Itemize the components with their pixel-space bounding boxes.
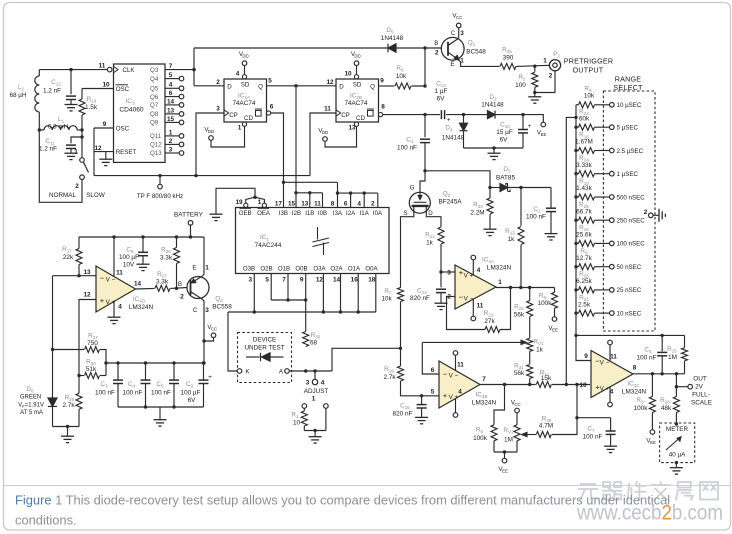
wire to ground	[534, 93, 536, 97]
capacitor C13 1uF	[441, 110, 444, 119]
wire C11 bottom	[70, 149, 72, 153]
svg-text:5: 5	[431, 389, 435, 396]
svg-text:1N4148: 1N4148	[442, 135, 465, 142]
svg-text:5: 5	[265, 277, 269, 284]
svg-text:G: G	[410, 185, 415, 192]
svg-text:100k: 100k	[538, 300, 553, 307]
svg-text:BATTERY: BATTERY	[174, 212, 204, 219]
wire CP11 to bottom rail	[310, 113, 336, 176]
junction R13 tap	[519, 186, 522, 189]
svg-text:V +: V +	[600, 386, 610, 393]
wire R28 to Q2 base	[171, 287, 188, 290]
svg-text:V +: V +	[464, 273, 474, 280]
svg-text:8: 8	[381, 104, 385, 111]
wire ladder bus to pin9	[576, 105, 591, 361]
wire R33 top	[489, 188, 491, 199]
svg-text:2.5k: 2.5k	[578, 301, 591, 308]
switch contact 2 (normal/slow)	[80, 175, 85, 180]
box RANGE SELECT	[603, 91, 655, 331]
wire output drop x358	[357, 274, 359, 313]
ground C8	[137, 264, 150, 270]
resistor R26 6.25k (25 nSEC)	[579, 287, 595, 293]
wire V- stub IC4A	[472, 300, 474, 317]
wire R17 top	[78, 237, 80, 249]
svg-text:4.7M: 4.7M	[539, 423, 553, 430]
wire C2 bottom	[550, 212, 552, 234]
resistor R27 750	[85, 347, 100, 353]
clock wedge IC2A	[224, 110, 229, 116]
wire bus lead 10 nSEC	[576, 312, 579, 314]
junction C7 tap	[575, 416, 578, 419]
terminal VEE RV2	[502, 458, 507, 463]
svg-text:100 nF: 100 nF	[637, 355, 657, 362]
wire battery rail	[79, 236, 204, 238]
resistor R33 2.2M	[487, 198, 493, 214]
resistor R2 100	[532, 72, 538, 87]
diode DUT	[246, 353, 284, 361]
terminal V+ supply IC4A	[471, 255, 476, 260]
switch contact 1 (normal/slow)	[80, 158, 85, 163]
gate bar Q3	[414, 201, 427, 203]
terminal Q8 output	[179, 112, 184, 117]
wire into pin3	[441, 271, 455, 273]
terminal Q9 output	[179, 120, 184, 125]
wire C15 top	[421, 396, 423, 404]
svg-text:15: 15	[167, 116, 175, 123]
svg-text:74AC74: 74AC74	[344, 100, 368, 107]
resistor R14	[79, 99, 85, 115]
wire R20 bottom	[78, 409, 80, 426]
wire bus lead 1 µSEC	[576, 173, 579, 175]
base bar Q2	[190, 280, 192, 295]
svg-text:1: 1	[312, 396, 316, 403]
svg-text:C: C	[451, 30, 456, 37]
terminal BATTERY	[188, 221, 193, 226]
wire feedback rail top	[576, 334, 685, 336]
overline OEB OEA	[240, 208, 270, 210]
ground range select	[659, 209, 665, 222]
wire C8 top	[142, 237, 144, 252]
wire adjust stub	[314, 371, 316, 379]
junction gate node	[423, 169, 426, 172]
junction R17 bottom	[77, 274, 80, 277]
svg-text:3: 3	[216, 106, 220, 113]
junction R13 bottom	[519, 286, 522, 289]
svg-text:+: +	[528, 123, 532, 130]
wire C7 top	[610, 418, 612, 431]
svg-text:EE: EE	[541, 132, 547, 137]
wire pin4 stub	[363, 193, 365, 207]
svg-text:CD: CD	[356, 115, 365, 122]
terminal VCC RV2	[515, 408, 520, 413]
wire RESET ground stub	[105, 152, 107, 159]
junction R26 bottom	[175, 287, 178, 290]
wire meter ground stub	[675, 463, 677, 468]
svg-text:3.3k: 3.3k	[160, 255, 173, 262]
wire vertical into IC2A D input	[193, 48, 195, 86]
wire OSC pin10	[82, 88, 114, 90]
svg-text:FULL-: FULL-	[692, 392, 710, 399]
connector P2 outer	[549, 60, 560, 71]
resistor R28 48k	[673, 397, 679, 413]
wire D1 top	[463, 115, 465, 123]
svg-text:1: 1	[74, 149, 78, 156]
wire C14 top	[440, 272, 442, 287]
svg-text:E: E	[192, 265, 196, 272]
svg-text:OUTPUT: OUTPUT	[573, 66, 604, 75]
terminal range common	[649, 213, 654, 218]
wire LED/R20 join	[53, 426, 80, 428]
junction trigger feed	[574, 116, 577, 119]
wire header A upper	[284, 181, 338, 183]
svg-text:I0A: I0A	[373, 210, 383, 217]
svg-text:Q: Q	[370, 83, 375, 90]
wire ground stub	[493, 148, 495, 153]
svg-text:2: 2	[180, 294, 184, 301]
wire bus to K terminal	[228, 312, 237, 371]
svg-text:V −: V −	[464, 296, 474, 303]
junction meter bottom	[675, 461, 678, 464]
wire V+ stub IC4C	[609, 387, 611, 402]
wire R27 right	[100, 350, 106, 376]
svg-text:V −: V −	[449, 373, 459, 380]
wire TP stub	[159, 176, 161, 185]
junction bus/feedback	[574, 334, 577, 337]
svg-text:RESET: RESET	[116, 149, 137, 156]
wire output bus low	[228, 311, 376, 313]
svg-text:2.2M: 2.2M	[470, 210, 484, 217]
svg-text:EE: EE	[502, 469, 508, 474]
junction C6 top	[661, 334, 664, 337]
svg-text:3: 3	[447, 270, 451, 277]
wire OE to ground	[216, 188, 255, 214]
junction pin6 header	[282, 181, 285, 184]
svg-text:I1B: I1B	[305, 210, 314, 217]
svg-text:6.25k: 6.25k	[576, 278, 592, 285]
svg-text:4: 4	[458, 389, 462, 396]
svg-text:1: 1	[169, 129, 173, 136]
svg-text:750: 750	[87, 340, 98, 347]
svg-text:Q3: Q3	[150, 67, 159, 74]
resistor R6 10k	[395, 83, 411, 89]
junction pin8/C13/C1	[423, 113, 426, 116]
watermark glyph 5	[700, 482, 718, 500]
svg-text:O0A: O0A	[365, 266, 378, 273]
svg-text:100 nSEC: 100 nSEC	[617, 241, 646, 248]
svg-text:1M: 1M	[668, 354, 677, 361]
wire to 50 nSEC terminal	[595, 266, 610, 268]
wire SD to VDD IC2B	[356, 66, 358, 75]
svg-text:Q: Q	[258, 83, 263, 90]
resistor R28 3.3k (base)	[155, 285, 170, 291]
terminal Q12 output	[179, 142, 184, 147]
svg-text:40 µA: 40 µA	[669, 452, 686, 459]
svg-text:56k: 56k	[514, 370, 525, 377]
terminal K DUT	[237, 369, 242, 374]
wire R26 bottom	[176, 264, 178, 289]
svg-text:4: 4	[477, 267, 481, 274]
svg-text:8: 8	[331, 201, 335, 208]
wire C13 to D1 tap	[446, 114, 464, 116]
wire RESET pin12	[94, 151, 114, 153]
wire R17 bottom	[78, 265, 80, 276]
capacitor C15 820nF	[417, 405, 427, 408]
svg-text:Q9: Q9	[150, 120, 159, 127]
svg-text:66.7k: 66.7k	[576, 208, 592, 215]
junction bus x323	[322, 310, 325, 313]
terminal Q4 output	[179, 76, 184, 81]
wire header A bus	[338, 192, 378, 194]
junction R31 bottom	[528, 383, 531, 386]
diode D5 1N4148	[388, 44, 396, 53]
svg-text:4: 4	[118, 304, 122, 311]
svg-text:3.33k: 3.33k	[576, 162, 592, 169]
svg-text:LM324N: LM324N	[487, 265, 512, 272]
capacitor C14 820nF	[436, 289, 446, 292]
svg-text:100: 100	[515, 82, 526, 89]
resistor R9 10k (10 µSEC)	[579, 102, 595, 108]
svg-text:1.5k: 1.5k	[85, 104, 98, 111]
wire Q5 to D12	[267, 85, 337, 87]
junction pin13	[308, 191, 311, 194]
wire pin9 drop	[93, 128, 95, 176]
svg-text:SLOW: SLOW	[86, 192, 105, 199]
svg-text:10 µSEC: 10 µSEC	[617, 102, 642, 109]
svg-text:EE: EE	[552, 328, 558, 333]
wire R2 top	[534, 66, 536, 72]
wire R14 top	[81, 89, 83, 100]
schottky hooks D3	[506, 184, 510, 192]
svg-text:Q6: Q6	[150, 94, 159, 101]
svg-text:DD: DD	[242, 54, 248, 59]
junction collector/rail	[202, 361, 205, 364]
wiper arrow RV1	[422, 340, 526, 344]
wire C2 top	[550, 188, 552, 208]
wire R15 top	[684, 335, 686, 347]
transistor Q1 BC548 body	[441, 37, 464, 60]
wire LED ground stub	[67, 427, 69, 436]
junction TP stub	[158, 174, 161, 177]
junction D1 tap	[462, 113, 465, 116]
svg-text:10: 10	[293, 420, 301, 427]
svg-text:3: 3	[460, 30, 464, 37]
wire output drop x288	[287, 274, 289, 301]
svg-text:CC: CC	[514, 402, 520, 407]
wire OSC pin9	[94, 127, 114, 129]
svg-text:NORMAL: NORMAL	[49, 192, 76, 199]
junction R7/R19	[399, 347, 402, 350]
svg-text:E: E	[450, 61, 454, 68]
terminal Q7 output	[179, 103, 184, 108]
wire Q5 stub	[165, 87, 179, 89]
op-amp IC4C LM324N	[591, 351, 633, 398]
resistor R3 100k	[649, 397, 655, 413]
clock wedge CLK	[114, 66, 119, 72]
svg-text:ADJUST: ADJUST	[304, 388, 329, 395]
svg-text:D: D	[339, 83, 344, 90]
emitter stroke Q1 with arrow	[448, 52, 459, 60]
capacitor C2 100nF	[546, 208, 556, 211]
junction OE net	[253, 196, 256, 199]
watermark glyph 1	[602, 482, 622, 500]
svg-text:4: 4	[357, 201, 361, 208]
wire top rail right of D5	[396, 47, 441, 49]
resistor R22 56k	[527, 301, 533, 317]
svg-text:VF=1.91V: VF=1.91V	[18, 403, 44, 409]
capacitor C1 100nF	[420, 139, 430, 142]
svg-text:V +: V +	[449, 394, 459, 401]
junction CP3 on rail	[194, 174, 197, 177]
resistor R25 390	[500, 63, 516, 69]
svg-text:9: 9	[380, 78, 384, 85]
junction	[192, 68, 195, 71]
svg-text:12: 12	[326, 79, 334, 86]
svg-text:1.43k: 1.43k	[576, 185, 592, 192]
svg-text:10k: 10k	[396, 73, 407, 80]
svg-text:3: 3	[306, 380, 310, 387]
wire R13 top	[520, 188, 522, 226]
wire to 2.5 µSEC terminal	[595, 150, 610, 152]
wire bus lead 500 nSEC	[576, 196, 579, 198]
wire header B bus	[296, 192, 323, 194]
svg-text:conditions.: conditions.	[15, 513, 77, 528]
svg-text:1N4148: 1N4148	[481, 102, 504, 109]
wire Q11 stub	[165, 135, 179, 137]
wire R6b top	[554, 288, 556, 293]
svg-text:DD: DD	[208, 129, 214, 134]
svg-text:6V: 6V	[500, 137, 509, 144]
junction R30 left	[77, 374, 80, 377]
capacitor C11	[66, 145, 76, 148]
svg-text:3: 3	[169, 146, 173, 153]
resistor R25 66.7k (250 nSEC)	[579, 217, 595, 223]
wire to D3	[490, 187, 500, 189]
svg-text:100 nF: 100 nF	[397, 145, 417, 152]
svg-text:SD: SD	[241, 81, 250, 88]
svg-text:13: 13	[83, 269, 91, 276]
op-amp IC4B LM324N	[439, 361, 480, 408]
svg-text:6V: 6V	[437, 96, 446, 103]
svg-text:2.7k: 2.7k	[383, 374, 396, 381]
wire R6b bottom	[554, 308, 556, 316]
resistor R24 3.33k (1 µSEC)	[579, 171, 595, 177]
svg-text:12.7k: 12.7k	[576, 255, 592, 262]
ground D1/C10	[488, 153, 501, 159]
svg-text:15 µF: 15 µF	[496, 129, 513, 136]
svg-text:100 nF: 100 nF	[151, 390, 171, 397]
diode D1 1N4148	[460, 123, 468, 131]
wire Q2 emitter up	[202, 237, 204, 276]
svg-text:LM324N: LM324N	[622, 389, 647, 396]
svg-text:OSC: OSC	[116, 86, 130, 93]
svg-text:DD: DD	[322, 130, 328, 135]
junction OUT stub	[675, 385, 678, 388]
terminal adjust left	[302, 404, 307, 409]
potentiometer RV2 1M	[514, 425, 520, 441]
svg-text:I3B: I3B	[279, 210, 288, 217]
terminal adjust right	[324, 404, 329, 409]
capacitor C4	[141, 380, 151, 383]
svg-text:15k: 15k	[541, 375, 552, 382]
junction C6 bottom	[661, 372, 664, 375]
svg-text:390: 390	[503, 55, 514, 62]
svg-text:9: 9	[103, 121, 107, 128]
terminal Q13 output	[179, 151, 184, 156]
wire gate node to D3 row	[425, 171, 490, 188]
ground C11	[65, 153, 78, 159]
svg-text:OEB: OEB	[239, 210, 252, 217]
resistor R9 12.7k (50 nSEC)	[579, 264, 595, 270]
junction D3/R33	[488, 186, 491, 189]
svg-text:1: 1	[460, 58, 464, 65]
wire output drop x271	[270, 274, 272, 301]
wire Q12 stub	[165, 143, 179, 145]
wire C4 bottom	[145, 384, 147, 407]
watermark glyph 0	[578, 484, 598, 501]
wire outputs join high	[271, 299, 306, 301]
wire R29 to pin10 node	[552, 385, 577, 435]
wire top rail left of D5	[194, 47, 387, 49]
svg-text:1: 1	[258, 199, 262, 206]
svg-text:10k: 10k	[381, 296, 392, 303]
svg-text:V −: V −	[600, 360, 610, 367]
svg-text:+: +	[100, 296, 105, 305]
junction Q5 drop	[294, 84, 297, 87]
svg-text:3.3k: 3.3k	[156, 279, 169, 286]
wire A node	[289, 370, 332, 372]
pin symbol Qbar IC2B	[367, 109, 374, 116]
wire LED bottom	[52, 407, 54, 427]
wire bus lead 50 nSEC	[576, 266, 579, 268]
terminal 10 nSEC	[610, 311, 615, 316]
wire VEE stub	[504, 452, 506, 458]
bubble SD IC2A	[242, 75, 246, 79]
terminal 2.5 µSEC	[610, 148, 615, 153]
svg-text:BAT85: BAT85	[496, 175, 516, 182]
svg-text:25.6k: 25.6k	[576, 232, 592, 239]
junction	[144, 405, 147, 408]
wire bus lead 100 nSEC	[576, 242, 579, 244]
wire bus lead 25 nSEC	[576, 289, 579, 291]
junction ladder row 2.5 µSEC	[574, 149, 577, 152]
bubble CD IC2B	[354, 122, 358, 126]
svg-text:O1B: O1B	[278, 266, 290, 273]
wire QA drop to pin15	[295, 86, 297, 208]
svg-text:I2B: I2B	[292, 210, 301, 217]
wire R30 left	[79, 375, 84, 377]
wire left rail top	[38, 70, 40, 76]
wire R19 to IC4B plus	[401, 381, 440, 396]
svg-text:25 nSEC: 25 nSEC	[617, 287, 642, 294]
svg-text:I0B: I0B	[318, 210, 327, 217]
svg-text:METER: METER	[666, 426, 688, 433]
svg-text:TP F 800/80 kHz: TP F 800/80 kHz	[137, 193, 183, 200]
resistor R29 4.7M	[536, 432, 551, 438]
svg-text:Q7: Q7	[150, 102, 159, 109]
resistor R16 1.67M (2.5 µSEC)	[579, 148, 595, 154]
terminal VDD IC2B CD	[323, 137, 328, 142]
wire pin6 drop to IC1	[271, 113, 284, 208]
wire to 25 nSEC terminal	[595, 289, 610, 291]
wire Q4 stub	[165, 78, 179, 80]
wire R21 to output	[500, 288, 511, 330]
svg-text:1: 1	[543, 58, 547, 65]
svg-text:CD: CD	[244, 115, 253, 122]
svg-text:O2A: O2A	[330, 266, 343, 273]
svg-text:12: 12	[94, 145, 102, 152]
wire Q1 emitter to R25	[459, 60, 499, 66]
terminal Q5 output	[179, 86, 184, 91]
